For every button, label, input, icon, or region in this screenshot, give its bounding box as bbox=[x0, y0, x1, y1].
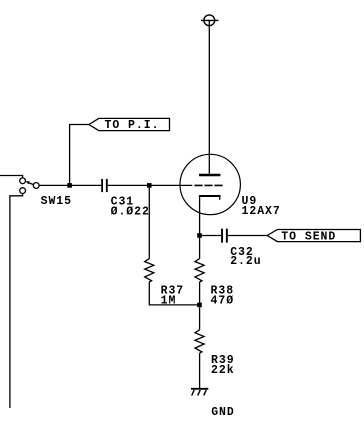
wire to TO P.I. flag bbox=[70, 125, 89, 184]
wire grid lead left bbox=[39, 184, 101, 186]
resistor R39 bbox=[195, 330, 204, 353]
wire R39 to ground bbox=[199, 353, 201, 388]
resistor R38 bbox=[195, 259, 204, 282]
wire junction to C32 bbox=[200, 235, 222, 237]
resistor R37 bbox=[145, 259, 154, 282]
svg-text:SW15: SW15 bbox=[41, 195, 72, 208]
wire junction to R38 bbox=[199, 238, 201, 259]
wire R38 bottom bbox=[199, 282, 201, 303]
junction grid / TO P.I. bbox=[67, 183, 72, 188]
svg-text:47Ø: 47Ø bbox=[211, 295, 235, 308]
op-amp U1 triode envelope U9 bbox=[180, 154, 240, 214]
flag TO SEND bbox=[267, 230, 360, 242]
wire bottom left output bbox=[10, 194, 23, 409]
U9 cathode bbox=[199, 196, 221, 200]
svg-text:Ø.Ø22: Ø.Ø22 bbox=[111, 205, 150, 218]
svg-text:12AX7: 12AX7 bbox=[242, 205, 281, 218]
wire junction to R39 bbox=[199, 307, 201, 330]
wire R37 bottom to junction bbox=[149, 282, 199, 305]
wire plate supply bbox=[208, 20, 210, 173]
svg-text:22k: 22k bbox=[211, 364, 235, 377]
wire C32 to TO SEND flag bbox=[228, 235, 267, 237]
wire cathode down bbox=[199, 196, 201, 233]
U9 plate bbox=[199, 174, 220, 176]
wire grid lead right bbox=[108, 184, 193, 186]
flag TO P.I. bbox=[89, 118, 170, 130]
wire grid junction to R37 bbox=[148, 188, 150, 259]
ground bbox=[191, 389, 208, 396]
switch SW15 bbox=[20, 178, 39, 194]
junction R37 / R38 / R39 bbox=[197, 303, 202, 308]
wire top left input bbox=[0, 176, 23, 178]
svg-text:2.2u: 2.2u bbox=[230, 255, 261, 268]
U9 grid bbox=[194, 184, 222, 186]
svg-text:GND: GND bbox=[211, 406, 235, 419]
capacitor C32 bbox=[221, 229, 228, 243]
capacitor C31 bbox=[101, 179, 108, 192]
junction grid / R37 bbox=[147, 183, 152, 188]
junction cathode / C32 / R38 bbox=[197, 233, 202, 238]
svg-text:TO P.I.: TO P.I. bbox=[105, 119, 160, 132]
power rail connection bbox=[201, 15, 218, 26]
svg-text:TO SEND: TO SEND bbox=[281, 230, 336, 243]
